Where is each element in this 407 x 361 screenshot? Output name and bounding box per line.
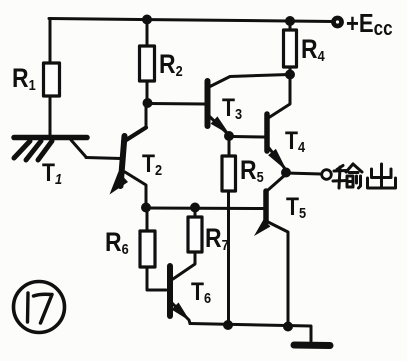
node T3 emitter junction [224, 131, 234, 141]
transistor T6 emitter arrow [172, 303, 191, 322]
figure number digit 7 [34, 294, 53, 323]
transistor T3 emitter arrow [211, 116, 230, 135]
wire long base rail to T5 [146, 207, 263, 211]
wire R7 top lead [194, 207, 197, 217]
transistor T6 emitter line [172, 303, 190, 324]
wire T3 emitter node to T4 base [233, 135, 264, 139]
label 输出 (output) char 1 [333, 164, 362, 188]
transistor T2 collector [123, 128, 146, 143]
transistor T3 bar [205, 81, 211, 126]
node T5 emitter bottom junction [283, 322, 293, 332]
label 输出 (output) char 2 [368, 164, 396, 188]
svg-text:T5: T5 [286, 192, 306, 221]
transistor T1 hatch stroke 3 [38, 141, 52, 160]
node R7 top junction [190, 203, 200, 213]
transistor T2 emitter line [125, 172, 146, 207]
resistor R5 [222, 156, 236, 191]
svg-text:R2: R2 [159, 49, 183, 79]
transistor T1 emitter line [71, 140, 86, 157]
transistor T5 emitter arrow (PNP) [254, 220, 271, 237]
node R2 bottom junction [143, 98, 153, 108]
transistor T1 hatch stroke 1 [14, 141, 30, 158]
svg-text:R1: R1 [12, 63, 36, 93]
svg-text:R5: R5 [240, 155, 264, 185]
wire R6 top lead [146, 208, 149, 231]
node top rail / R4 junction [285, 16, 295, 26]
transistor T3 collector [209, 75, 289, 88]
figure number circle 17 [14, 282, 65, 333]
transistor T5 collector [268, 175, 285, 190]
wire R2 bottom lead [146, 81, 149, 103]
transistor T4 emitter line [269, 148, 286, 170]
figure number digit 1 [26, 293, 30, 322]
resistor R4 [284, 30, 297, 67]
transistor T3 emitter line [209, 116, 228, 134]
svg-text:+Ecc: +Ecc [346, 9, 393, 39]
transistor T4 bar [264, 114, 270, 151]
svg-text:R7: R7 [205, 223, 229, 253]
resistor R2 [140, 46, 155, 81]
wire T1 to T2 base [86, 158, 121, 159]
wire R5 bottom lead [227, 191, 230, 325]
svg-text:T6: T6 [191, 277, 211, 306]
wire R4 top lead [289, 22, 292, 32]
resistor R7 [188, 217, 202, 252]
node R5 bottom junction [223, 320, 233, 330]
svg-text:R6: R6 [105, 227, 129, 257]
resistor R1 [44, 63, 60, 96]
wire R6 bottom lead to T6 base [147, 267, 166, 290]
transistor T6 bar [167, 266, 173, 316]
transistor T2 bar [121, 136, 125, 186]
svg-text:T1: T1 [42, 158, 62, 187]
wire bottom rail [190, 324, 311, 342]
wire R5 top lead [228, 137, 231, 157]
transistor T4 collector [269, 75, 290, 118]
svg-text:T3: T3 [222, 93, 242, 122]
svg-text:T4: T4 [285, 126, 305, 155]
wire R2 junction to T3 base [149, 102, 205, 106]
wire R2 top lead [146, 20, 149, 46]
node output junction [281, 168, 291, 178]
resistor R6 [140, 231, 155, 267]
transistor T1 hatch stroke 2 [26, 141, 41, 160]
transistor T6 collector [173, 252, 195, 279]
transistor T5 emitter line [268, 222, 288, 326]
node R4 bottom junction [285, 70, 295, 80]
terminal output circle [322, 170, 332, 180]
wire output [286, 173, 321, 174]
svg-text:R4: R4 [301, 34, 325, 64]
wire R4 bottom lead [289, 67, 292, 74]
transistor T4 emitter arrow [268, 149, 287, 171]
wire R1 bottom lead [49, 96, 52, 136]
transistor T2 emitter arrow (PNP) [110, 172, 129, 195]
node top rail / R2 junction [142, 15, 152, 25]
node T2 emitter junction [141, 203, 151, 213]
transistor T5 bar [263, 191, 269, 222]
terminal +Ecc circle [334, 18, 342, 26]
ground [294, 342, 330, 350]
wire R1 top lead [49, 19, 52, 65]
transistor T1 base bar [14, 135, 87, 141]
wire top supply rail [49, 19, 334, 22]
svg-text:T2: T2 [142, 149, 162, 178]
